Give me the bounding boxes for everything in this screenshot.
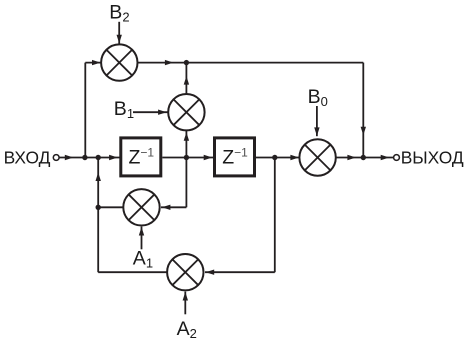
svg-text:ВХОД: ВХОД <box>4 147 51 167</box>
svg-text:ВЫХОД: ВЫХОД <box>401 147 464 167</box>
